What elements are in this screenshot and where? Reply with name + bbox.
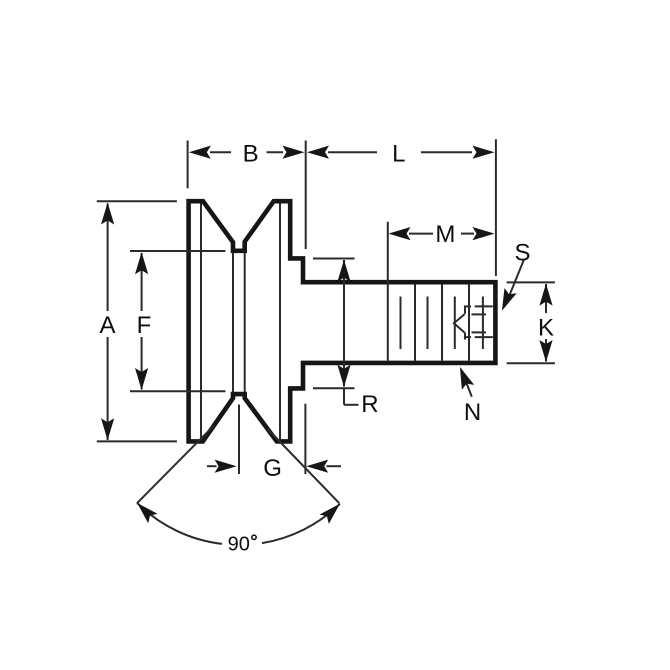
svg-text:L: L	[392, 141, 405, 168]
svg-text:R: R	[361, 391, 378, 418]
svg-text:90: 90	[228, 534, 250, 556]
svg-text:M: M	[435, 221, 455, 248]
svg-text:F: F	[137, 312, 152, 339]
svg-text:N: N	[464, 399, 481, 426]
svg-text:G: G	[263, 455, 282, 482]
svg-text:B: B	[243, 141, 259, 168]
svg-text:S: S	[514, 240, 530, 267]
svg-text:A: A	[99, 312, 115, 339]
svg-text:K: K	[538, 314, 554, 341]
